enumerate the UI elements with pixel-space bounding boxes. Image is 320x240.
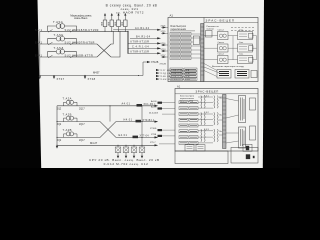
svg-text:КТ9Я-КТ15Я: КТ9Я-КТ15Я (131, 40, 150, 43)
svg-text:2Q17: 2Q17 (79, 140, 85, 142)
node: dashed terminal row (231, 28, 254, 31)
switch SU2 row1 (65, 28, 99, 32)
svg-text:Н4.01: Н4.01 (124, 118, 133, 121)
terminal cells upper rows (170, 33, 191, 60)
cell marks lower-left of upper box (171, 69, 196, 79)
wire: feed A4.R1 (113, 27, 161, 31)
fuse FU4 (124, 13, 128, 31)
svg-text:Блок быстрого: Блок быстрого (171, 26, 187, 28)
entry label 04.4-04.B (149, 112, 175, 114)
switch SU2 row3 (65, 54, 94, 58)
thyristor block VT2 (235, 70, 249, 79)
entry arrow XT05 (161, 25, 169, 28)
wire: XT12G entry (156, 69, 189, 72)
relay group K5 (204, 54, 228, 64)
node: top feeder text (106, 3, 158, 14)
svg-text:ЅU2 КНИ18ЛЯ-КТ15Я: ЅU2 КНИ18ЛЯ-КТ15Я (65, 28, 99, 32)
wire: lower row 1 (57, 105, 158, 107)
resistor block R (250, 98, 256, 110)
wire: XT12B tap (138, 61, 159, 76)
node: header lower box (180, 96, 195, 103)
svg-text:Т.А2Б: Т.А2Б (63, 112, 72, 116)
svg-text:0-К12 М-702 секц. К12: 0-К12 М-702 секц. К12 (104, 162, 149, 166)
wire: fan to thyristors (204, 64, 222, 77)
svg-text:А4.01: А4.01 (122, 103, 131, 106)
svg-text:ЅU1: ЅU1 (35, 28, 43, 32)
wire: XT14E entry (156, 75, 190, 78)
svg-text:ХТ57: ХТ57 (161, 55, 167, 57)
svg-text:2Q2: 2Q2 (57, 124, 62, 126)
wire: drop feeder right (127, 31, 129, 53)
block A1 upper (168, 13, 258, 81)
svg-text:ХТ7-04: ХТ7-04 (140, 136, 150, 138)
svg-text:М437: М437 (93, 71, 100, 75)
svg-text:Включение тиристоров на ходу: Включение тиристоров на ходу (212, 66, 245, 68)
svg-text:В4.Я1-04: В4.Я1-04 (136, 35, 151, 38)
wire: feed KT9 (128, 40, 161, 44)
svg-text:А4.Я1-04: А4.Я1-04 (135, 27, 150, 30)
transformer T.A2A (63, 97, 78, 106)
svg-text:переключения: переключения (171, 29, 187, 31)
wire: feed B4.R1 (130, 35, 161, 39)
wire: transposition X lower (100, 122, 116, 138)
svg-text:А4.03: А4.03 (151, 100, 157, 103)
fuse tick labels (101, 23, 123, 26)
svg-text:Т.А2А: Т.А2А (63, 97, 72, 101)
svg-text:ЗРАС-ВЕЦЕП: ЗРАС-ВЕЦЕП (206, 18, 236, 22)
entry arrow XT16 (161, 43, 169, 46)
relay module aux (206, 31, 213, 38)
svg-text:2Q2: 2Q2 (57, 108, 62, 110)
wire: mid vertical x110 (109, 106, 111, 122)
wire: lower row 2 (57, 121, 158, 123)
arrester F3 (131, 145, 137, 159)
wire: inner divider (203, 18, 205, 82)
panel frame lower (175, 151, 228, 164)
wire: XT12D entry (156, 72, 190, 75)
wire: transposition X upper (97, 44, 111, 57)
fuse FU1 (103, 13, 107, 31)
aux box right (231, 144, 258, 163)
wire: M4.27 return (56, 141, 158, 149)
entry arrow XT13 (161, 49, 169, 52)
wire: left vertical bus upper (39, 31, 41, 75)
thyristor block VT1 (217, 70, 231, 79)
wire: drop from bus to row2 (111, 31, 113, 44)
svg-text:ХТ13: ХТ13 (161, 49, 167, 51)
arrester F2 (123, 145, 129, 159)
svg-text:ХТ14Ж 0В4-04-С7Я-04Я: ХТ14Ж 0В4-04-С7Я-04Я (158, 79, 191, 81)
node: title ZRAS lower (175, 90, 258, 94)
cell text marks upper (171, 34, 190, 58)
thyristor block VT3 (251, 71, 257, 78)
transformer T.ASD (48, 46, 77, 57)
connector strip X2 lower (223, 95, 227, 149)
junction dots mid (109, 105, 142, 138)
wire: drop from bus to row3 (111, 31, 120, 57)
relay module M1 (239, 96, 246, 123)
cell marks lower box (180, 102, 197, 143)
relay group K2 (228, 30, 257, 40)
wire: row 3 (40, 56, 97, 58)
svg-text:ХТ05: ХТ05 (161, 25, 167, 27)
node N4.01 label (124, 118, 159, 122)
node: title ZRAS (204, 18, 258, 22)
arrester F1 (115, 145, 121, 159)
wire: cells to strip (191, 34, 201, 58)
entry arrow XT15 (161, 31, 169, 34)
wire: lower row 3 (57, 136, 158, 138)
svg-text:ХТ9-В4.1: ХТ9-В4.1 (143, 120, 156, 122)
junction dots row1 (104, 31, 128, 32)
svg-text:ЅU1: ЅU1 (35, 41, 43, 45)
relay group K3 (204, 42, 228, 52)
wire: row 2 (40, 43, 97, 45)
wire: relay column links (233, 36, 257, 60)
switch SU1 row1 (35, 28, 53, 32)
node: bottom caption (89, 158, 159, 166)
relay module M2 (239, 127, 246, 148)
node: feeder bus label (70, 13, 92, 20)
node A4.01 label (122, 103, 159, 107)
wire: feed C4R1 (128, 45, 161, 49)
svg-text:А1: А1 (170, 13, 174, 17)
node E4.01 label (119, 134, 159, 138)
connector XS8 on bottom edge (196, 145, 205, 151)
svg-text:2Q17: 2Q17 (79, 124, 85, 126)
wire: coils to strip (219, 97, 223, 135)
relay group K4 (228, 42, 257, 52)
svg-text:сх. НАОЯ 7072: сх. НАОЯ 7072 (116, 10, 144, 14)
svg-text:Т.АЅД: Т.АЅД (54, 46, 64, 50)
fuse FU3 (117, 13, 121, 31)
svg-text:ХТ10Б: ХТ10Б (150, 128, 157, 130)
switch SU1 row2 (35, 41, 53, 45)
wire: header underline (170, 30, 195, 32)
connector XS7 on bottom edge (185, 145, 194, 151)
svg-text:Е4.01: Е4.01 (119, 134, 128, 137)
wire: M437 return bus (40, 71, 143, 76)
svg-text:Т.АЅЕ: Т.АЅЕ (54, 33, 64, 37)
terminal cells lower box (179, 101, 198, 145)
wire: feed KT9b (128, 50, 161, 54)
relay group K1 (204, 30, 228, 40)
svg-text:ЅU1: ЅU1 (35, 54, 43, 58)
node XT47 (39, 75, 65, 81)
block A1 lower (175, 85, 258, 151)
svg-text:КТ9Я-КТ15Я: КТ9Я-КТ15Я (131, 50, 150, 53)
svg-text:М4.27: М4.27 (90, 141, 98, 145)
transformer T.4.2 (198, 112, 223, 126)
svg-text:2Q17: 2Q17 (79, 108, 85, 110)
switch Q2 row2 (57, 124, 86, 126)
wire: strip to modules (226, 99, 239, 144)
page background (38, 0, 265, 168)
svg-text:ЅU2 КНИ07Я-КТ9Я: ЅU2 КНИ07Я-КТ9Я (65, 41, 95, 45)
svg-text:С.4.Я.1-04: С.4.Я.1-04 (132, 45, 149, 48)
resistor block R2 (250, 126, 256, 140)
svg-text:ХТ16: ХТ16 (161, 43, 167, 45)
svg-text:ЅU2 КНИЛЯ-КТ7Я: ЅU2 КНИЛЯ-КТ7Я (65, 54, 94, 58)
svg-text:ХТ9В: ХТ9В (151, 134, 157, 136)
svg-text:ХТ15: ХТ15 (161, 31, 167, 33)
entry label XT5.7 (150, 142, 175, 144)
entry arrow XT10 (150, 128, 175, 131)
transformer T.ASA (48, 20, 77, 31)
junction dots feeder (127, 43, 128, 54)
wire: mid vertical x142 (141, 106, 143, 146)
svg-text:ХТ47: ХТ47 (57, 77, 65, 81)
node XT48 (84, 75, 96, 81)
svg-text:04.4-04.В: 04.4-04.В (149, 112, 159, 114)
wire: row 1 bus (40, 30, 128, 32)
arrester F4 (139, 145, 145, 159)
svg-text:Т.А2В: Т.А2В (63, 128, 72, 132)
transformer T.4.1 (198, 95, 223, 108)
svg-text:А4.04: А4.04 (151, 106, 157, 109)
terminal cells lower rows (170, 68, 197, 80)
junction dots lower bus (56, 121, 57, 146)
switch Q2 row1 (57, 108, 86, 110)
svg-text:ХТ12В: ХТ12В (160, 64, 167, 66)
transformer T.A2B (63, 112, 78, 121)
entry arrow XT9 (151, 134, 175, 137)
relay group K6 (228, 54, 257, 64)
relay K mid box (193, 36, 199, 45)
wire: left vertical bus lower (56, 106, 58, 146)
transformer T.ASE (48, 33, 77, 44)
switch Q2 row3 (57, 140, 86, 142)
svg-text:А1: А1 (177, 85, 181, 89)
transformer T.A2V (63, 128, 78, 137)
entry arrow XT57 (161, 55, 169, 58)
entry label XT12V (160, 64, 167, 66)
svg-text:ХТ5.7: ХТ5.7 (150, 142, 156, 144)
entry arrow A4.04 (151, 106, 175, 110)
fuse FU2 (110, 13, 114, 31)
svg-text:ХТ48: ХТ48 (88, 77, 96, 81)
switch SU2 row2 (65, 41, 95, 45)
svg-text:ХТ12В: ХТ12В (151, 61, 159, 64)
svg-text:2Q2: 2Q2 (57, 140, 62, 142)
wire: XT14Zh entry (156, 78, 190, 81)
svg-text:связь Вакл.: связь Вакл. (74, 16, 88, 20)
switch SU1 row3 (35, 54, 53, 58)
connector strip X1 upper (201, 24, 204, 82)
node: left column header (171, 26, 187, 31)
transformer T.4.3 (198, 129, 223, 143)
svg-text:Т.АЅА: Т.АЅА (53, 20, 63, 24)
svg-text:ЗРАС-ВЕЦЕП: ЗРАС-ВЕЦЕП (196, 90, 219, 94)
entry arrow A4.03 (151, 100, 175, 104)
svg-text:панели: панели (207, 28, 215, 30)
node: front panel label (207, 26, 220, 31)
